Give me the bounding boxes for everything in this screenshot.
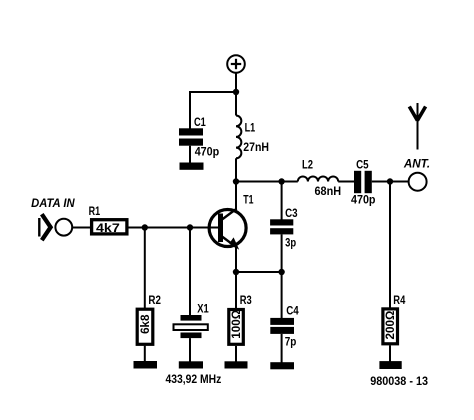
wire R1 to transistor base	[129, 227, 219, 229]
ground under R3	[225, 361, 248, 368]
wire X1 to ground	[189, 338, 191, 362]
wire down to C1	[189, 91, 191, 129]
wire junction to L1	[235, 92, 237, 116]
wire C3 top	[281, 182, 283, 220]
svg-text:3p: 3p	[285, 236, 296, 250]
node emitter	[233, 269, 239, 275]
svg-text:C3: C3	[285, 208, 298, 220]
capacitor C1	[179, 117, 219, 158]
svg-text:7p: 7p	[285, 334, 297, 348]
wire R2 drop	[144, 228, 146, 309]
node C4 top	[278, 269, 284, 275]
svg-text:L2: L2	[302, 160, 313, 172]
capacitor C5	[351, 160, 376, 207]
input plug DATA IN	[31, 196, 75, 240]
svg-text:68nH: 68nH	[315, 184, 342, 198]
svg-text:433,92 MHz: 433,92 MHz	[166, 372, 222, 386]
ground under C1	[180, 163, 204, 170]
antenna symbol	[409, 103, 425, 150]
ground under X1	[179, 361, 203, 368]
wire L1 to collector node	[235, 158, 237, 181]
svg-text:C4: C4	[286, 306, 299, 318]
svg-text:200Ω: 200Ω	[383, 310, 397, 339]
wire top rail to C1 branch	[189, 91, 236, 93]
wire C1 to ground	[189, 146, 191, 163]
node C3 top	[278, 178, 284, 184]
ground under R4	[379, 361, 401, 369]
wire C4 to ground	[281, 334, 283, 363]
capacitor C3	[270, 208, 298, 250]
transistor T1	[209, 195, 254, 250]
wire C5 to antenna junction	[372, 181, 390, 183]
wire R3 to ground	[235, 346, 237, 362]
inductor L2 68nH	[298, 160, 341, 198]
wire C3 bottom	[281, 234, 283, 272]
node top rail junction	[233, 89, 239, 95]
svg-text:T1: T1	[243, 195, 254, 207]
resistor R2 6k8	[137, 295, 161, 344]
svg-text:470p: 470p	[195, 144, 220, 158]
resistor R3 100Ω	[229, 295, 252, 344]
svg-text:C1: C1	[194, 117, 206, 129]
svg-text:470p: 470p	[351, 193, 376, 207]
ground under R2	[134, 361, 158, 369]
svg-text:980038 - 13: 980038 - 13	[370, 374, 428, 388]
wire collector to node	[235, 182, 237, 210]
svg-text:X1: X1	[197, 303, 209, 315]
crystal X1	[174, 303, 210, 338]
node R2 tap	[142, 224, 148, 230]
inductor L1 27nH	[236, 116, 269, 159]
capacitor C4	[270, 306, 299, 349]
resistor R1 4k7	[89, 206, 127, 235]
wire input terminal to R1	[72, 227, 90, 229]
svg-text:100Ω: 100Ω	[229, 309, 243, 338]
node antenna net	[387, 178, 393, 184]
svg-text:L1: L1	[245, 123, 256, 135]
terminal ANT.	[403, 156, 430, 190]
wire X1 drop	[189, 228, 191, 316]
node X1 tap	[187, 224, 193, 230]
svg-text:R2: R2	[148, 295, 161, 307]
terminal DATA IN circle	[55, 219, 72, 236]
resistor R4 200Ω	[383, 295, 406, 344]
svg-text:4k7: 4k7	[96, 221, 120, 235]
wire antenna junction down to R4	[389, 182, 391, 308]
svg-text:C5: C5	[356, 160, 369, 172]
wire emitter node to C4 node	[236, 271, 282, 273]
svg-text:DATA IN: DATA IN	[31, 196, 75, 210]
wire R4 to ground	[389, 345, 391, 362]
wire L2 to C5	[338, 181, 354, 183]
svg-text:R1: R1	[89, 206, 101, 218]
wire emitter node down to R3	[235, 272, 237, 308]
svg-text:6k8: 6k8	[138, 314, 152, 334]
wire power to top junction	[235, 73, 237, 93]
wire R2 to ground	[144, 346, 146, 362]
wire collector node to C3 node	[236, 181, 282, 183]
wire emitter to node	[235, 248, 237, 273]
svg-text:R3: R3	[240, 295, 252, 307]
ground under C4	[270, 362, 294, 369]
svg-text:R4: R4	[393, 295, 405, 307]
node collector	[233, 178, 239, 184]
wire C4 top	[281, 272, 283, 318]
svg-text:27nH: 27nH	[243, 140, 269, 154]
power supply terminal +	[227, 55, 245, 73]
wire C3 node to L2	[282, 181, 298, 183]
wire junction to ANT terminal	[390, 181, 409, 183]
svg-text:ANT.: ANT.	[403, 156, 430, 170]
